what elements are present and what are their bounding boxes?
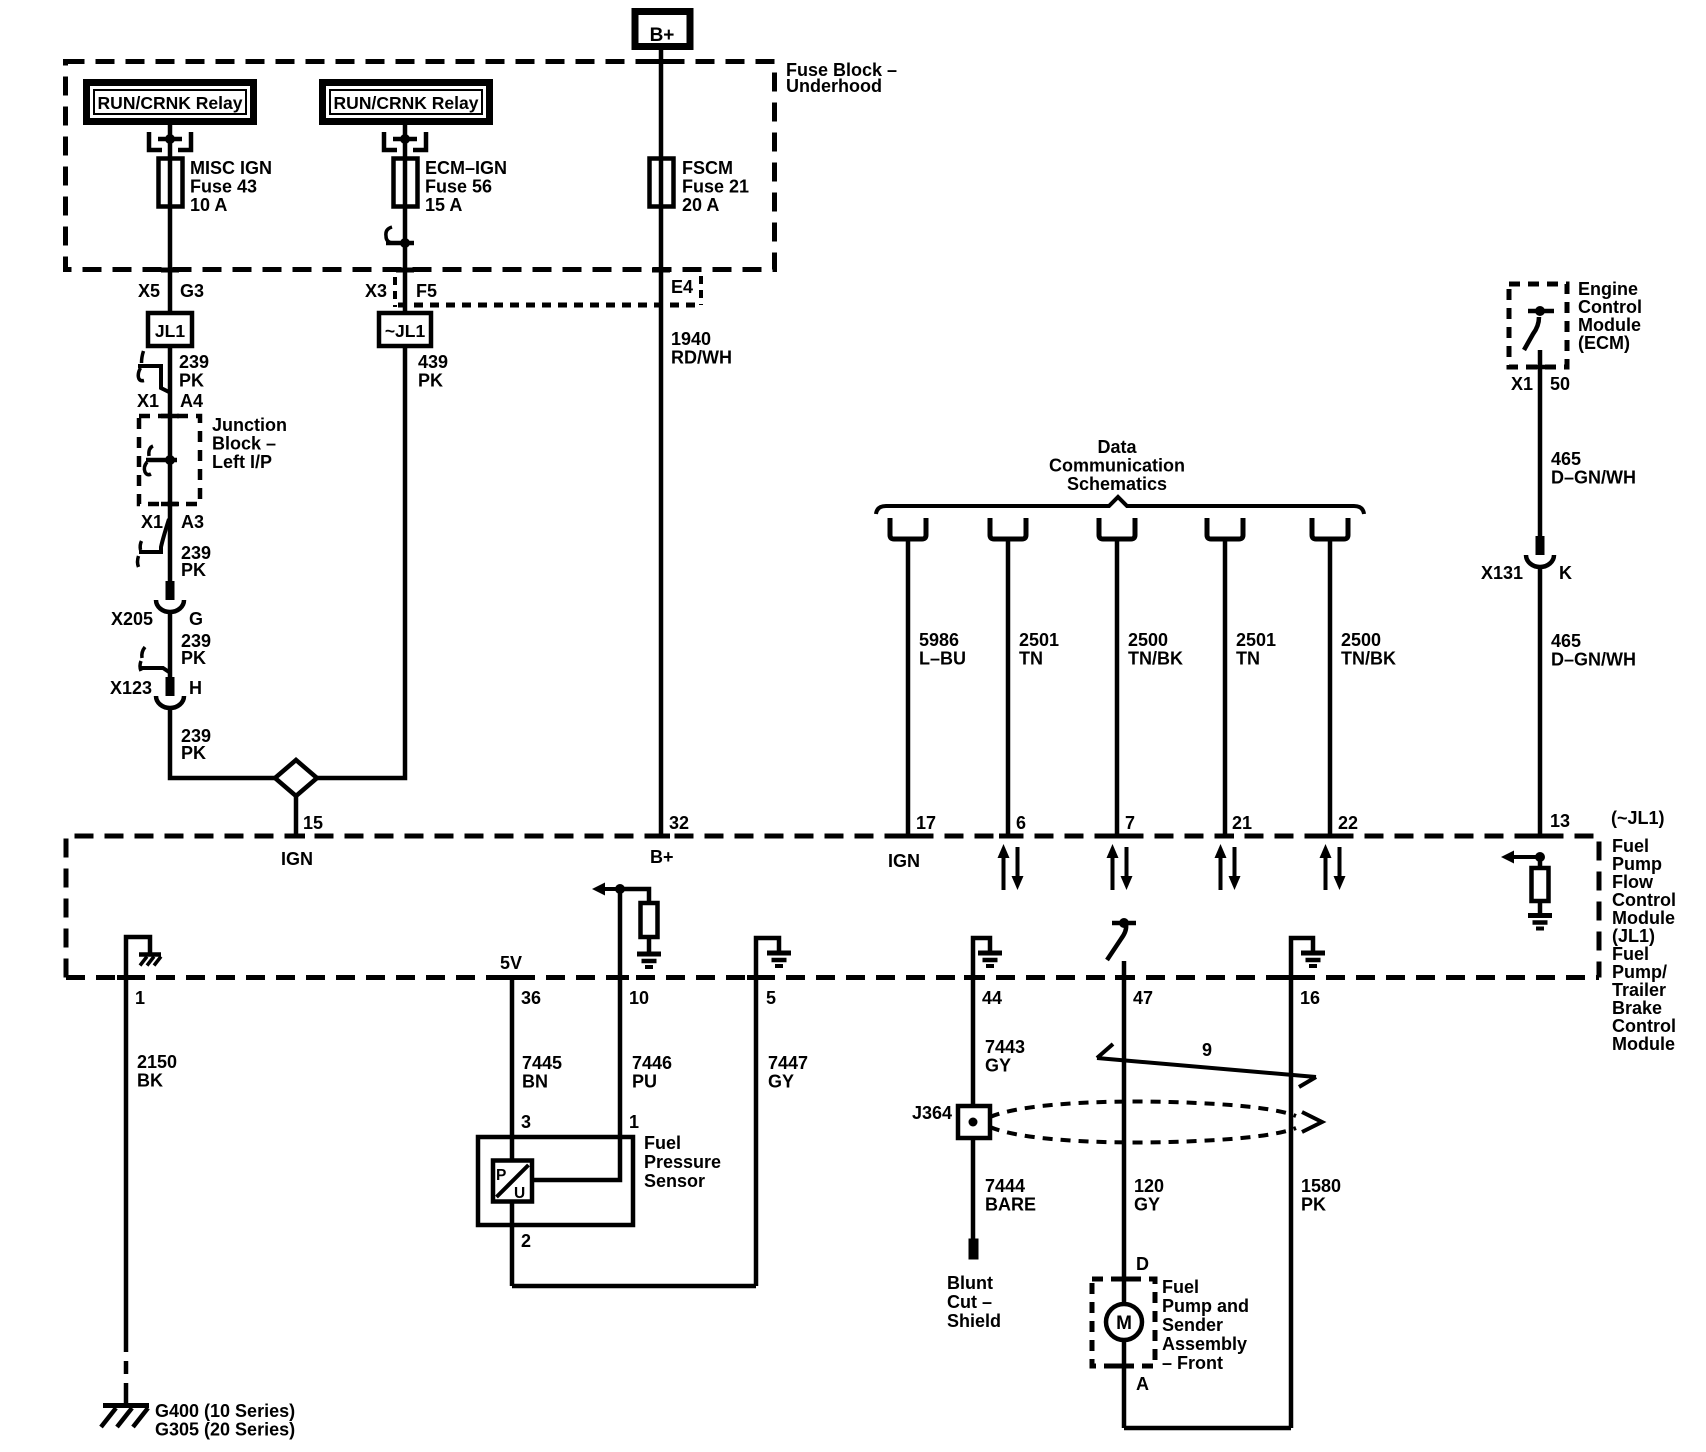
svg-text:~JL1: ~JL1	[385, 321, 426, 341]
svg-text:X131: X131	[1481, 563, 1523, 583]
fuse F21 FSCM	[650, 159, 674, 207]
svg-text:Block –: Block –	[212, 434, 276, 454]
junction block internal contact	[149, 446, 153, 456]
svg-text:G: G	[189, 609, 203, 629]
tick wire crossing fuse block bottom x661	[652, 268, 670, 273]
svg-text:7446: 7446	[632, 1053, 672, 1073]
connector X205 female cup	[156, 600, 184, 612]
svg-text:FSCM: FSCM	[682, 158, 733, 178]
tick wire crossing module bottom x1124	[1115, 975, 1133, 980]
serial data arrows at x1008	[1002, 854, 1006, 890]
svg-text:BK: BK	[137, 1071, 163, 1091]
svg-text:Communication: Communication	[1049, 456, 1185, 476]
svg-text:Pump: Pump	[1612, 854, 1662, 874]
connector X1 A4 jaw symbol	[142, 351, 144, 363]
dashed separator at E4	[699, 276, 703, 305]
tick wire crossing ECM box bottom	[1531, 365, 1549, 370]
junction block dashed box	[139, 416, 200, 504]
twisted pair indicator 9	[1097, 1058, 1316, 1077]
svg-text:TN: TN	[1236, 649, 1260, 669]
fuse block underhood dashed box	[66, 62, 775, 270]
fuse F43 MISC IGN	[159, 159, 183, 207]
wire B+ to FSCM fuse and down to pin 32	[659, 49, 664, 838]
svg-text:JL1: JL1	[155, 321, 185, 341]
svg-text:239: 239	[179, 352, 209, 372]
svg-text:7443: 7443	[985, 1037, 1025, 1057]
svg-text:465: 465	[1551, 631, 1581, 651]
data link connector symbol 2	[990, 518, 1026, 539]
pin 10 internal resistor	[641, 903, 658, 937]
svg-text:Module: Module	[1612, 908, 1675, 928]
svg-text:Flow: Flow	[1612, 872, 1654, 892]
tick wire crossing module top x1117	[1108, 834, 1126, 839]
tick wire crossing module top x1540	[1531, 834, 1549, 839]
svg-text:X3: X3	[365, 281, 387, 301]
fuse F56 ECM-IGN	[394, 159, 418, 207]
svg-text:X1: X1	[141, 512, 163, 532]
tick wire crossing module bottom x620	[611, 975, 629, 980]
ground G400/G305 chassis symbol	[124, 1396, 129, 1405]
svg-text:H: H	[189, 678, 202, 698]
connector X205 male pin	[166, 581, 175, 600]
shield dashed lens	[990, 1102, 1296, 1117]
pin 47 internal switch	[1122, 961, 1127, 977]
svg-text:(ECM): (ECM)	[1578, 333, 1630, 353]
data wire 1	[906, 539, 911, 838]
data link connector symbol 3	[1099, 518, 1135, 539]
fuel pump motor M	[1106, 1304, 1142, 1340]
pin 13 internal wire	[1538, 857, 1543, 915]
svg-text:(JL1): (JL1)	[1612, 926, 1655, 946]
svg-text:Control: Control	[1578, 297, 1642, 317]
svg-text:2500: 2500	[1341, 630, 1381, 650]
pin 13 internal arrow	[1513, 855, 1540, 859]
svg-text:7444: 7444	[985, 1176, 1025, 1196]
pin 13 internal ground	[1528, 913, 1552, 918]
wire ECM to X131	[1538, 350, 1543, 536]
serial data arrows at x1117	[1111, 854, 1115, 890]
svg-text:439: 439	[418, 352, 448, 372]
svg-text:5986: 5986	[919, 630, 959, 650]
fuel pressure sensor box	[478, 1137, 633, 1225]
svg-text:Fuse 56: Fuse 56	[425, 177, 492, 197]
wire pin 36 to sensor	[510, 977, 515, 1286]
svg-text:2150: 2150	[137, 1052, 177, 1072]
pin 10 internal resistor lead	[647, 937, 652, 953]
svg-text:J364: J364	[912, 1103, 952, 1123]
tick wire crossing junction block bottom	[161, 502, 179, 507]
svg-text:MISC IGN: MISC IGN	[190, 158, 272, 178]
pin 10 internal arrow	[604, 887, 620, 891]
svg-text:TN/BK: TN/BK	[1128, 649, 1183, 669]
svg-text:Schematics: Schematics	[1067, 474, 1167, 494]
brace over data connectors	[876, 497, 1364, 514]
svg-text:K: K	[1559, 563, 1572, 583]
svg-text:3: 3	[521, 1112, 531, 1132]
svg-text:2501: 2501	[1236, 630, 1276, 650]
svg-text:10 A: 10 A	[190, 195, 227, 215]
data wire 2	[1006, 539, 1011, 838]
data link connector symbol 1	[890, 518, 926, 539]
svg-text:A: A	[1136, 1374, 1149, 1394]
wire pump to 1580 PK	[1124, 1426, 1291, 1431]
svg-text:1940: 1940	[671, 329, 711, 349]
svg-text:Brake: Brake	[1612, 998, 1662, 1018]
svg-text:15 A: 15 A	[425, 195, 462, 215]
battery feed B+ box	[635, 12, 690, 47]
serial data arrows at x1225	[1219, 854, 1223, 890]
tick wire crossing pump box bottom	[1115, 1364, 1133, 1369]
svg-text:GY: GY	[768, 1072, 794, 1092]
svg-text:PK: PK	[179, 371, 204, 391]
svg-text:PK: PK	[181, 648, 206, 668]
svg-text:1: 1	[629, 1112, 639, 1132]
wire X131 to pin 13	[1538, 567, 1543, 838]
wire pin 47 to fuel pump	[1122, 977, 1127, 1428]
tick wire crossing module bottom x973	[964, 975, 982, 980]
svg-text:X1: X1	[137, 391, 159, 411]
svg-text:22: 22	[1338, 813, 1358, 833]
tick wire crossing module top x1008	[999, 834, 1017, 839]
data wire 5	[1328, 539, 1333, 838]
fuel pump flow control module dashed box	[66, 836, 1599, 978]
wire splice diamond to pin 15	[294, 796, 299, 838]
svg-text:44: 44	[982, 988, 1002, 1008]
svg-text:PK: PK	[418, 371, 443, 391]
svg-text:– Front: – Front	[1162, 1353, 1223, 1373]
switch contact below fuse 56	[386, 227, 392, 243]
svg-text:TN/BK: TN/BK	[1341, 649, 1396, 669]
svg-text:Assembly: Assembly	[1162, 1334, 1247, 1354]
tick wire crossing module top x1330	[1321, 834, 1339, 839]
svg-text:15: 15	[303, 813, 323, 833]
svg-text:RUN/CRNK Relay: RUN/CRNK Relay	[98, 93, 243, 113]
svg-text:ECM–IGN: ECM–IGN	[425, 158, 507, 178]
svg-text:36: 36	[521, 988, 541, 1008]
svg-text:BN: BN	[522, 1072, 548, 1092]
svg-text:Sensor: Sensor	[644, 1171, 705, 1191]
svg-text:1580: 1580	[1301, 1176, 1341, 1196]
node JL1 box	[148, 313, 192, 346]
pin 5 internal ground	[756, 938, 779, 977]
svg-text:X1: X1	[1511, 374, 1533, 394]
tick wire crossing module top x661	[652, 834, 670, 839]
svg-text:X205: X205	[111, 609, 153, 629]
svg-text:D: D	[1136, 1254, 1149, 1274]
tick wire crossing module bottom x1291	[1282, 975, 1300, 980]
tick wire crossing pump box top	[1115, 1277, 1133, 1282]
serial data arrows at x1330	[1324, 854, 1328, 890]
svg-text:Junction: Junction	[212, 415, 287, 435]
svg-text:Module: Module	[1578, 315, 1641, 335]
svg-text:Fuel: Fuel	[1612, 944, 1649, 964]
svg-text:Sender: Sender	[1162, 1315, 1223, 1335]
svg-text:F5: F5	[416, 281, 437, 301]
svg-text:TN: TN	[1019, 649, 1043, 669]
data wire 3	[1115, 539, 1120, 838]
svg-text:7445: 7445	[522, 1053, 562, 1073]
svg-text:U: U	[514, 1185, 525, 1202]
svg-text:G400 (10 Series): G400 (10 Series)	[155, 1401, 295, 1421]
svg-text:A4: A4	[180, 391, 203, 411]
svg-text:Fuel: Fuel	[1162, 1277, 1199, 1297]
wire pin 5 down	[754, 977, 759, 1286]
svg-text:GY: GY	[985, 1056, 1011, 1076]
pin 10 internal wire	[620, 889, 649, 903]
svg-text:G305 (20 Series): G305 (20 Series)	[155, 1420, 295, 1440]
svg-text:2500: 2500	[1128, 630, 1168, 650]
svg-text:32: 32	[669, 813, 689, 833]
pin 16 internal ground	[1291, 938, 1313, 977]
svg-text:D–GN/WH: D–GN/WH	[1551, 468, 1636, 488]
relay K2 RUN/CRNK Relay box	[323, 83, 490, 122]
svg-text:20 A: 20 A	[682, 195, 719, 215]
svg-text:RUN/CRNK Relay: RUN/CRNK Relay	[334, 93, 479, 113]
svg-text:(~JL1): (~JL1)	[1611, 808, 1665, 828]
svg-text:5: 5	[766, 988, 776, 1008]
svg-text:Control: Control	[1612, 890, 1676, 910]
svg-text:PK: PK	[1301, 1195, 1326, 1215]
svg-text:Underhood: Underhood	[786, 76, 882, 96]
svg-text:Fuel: Fuel	[644, 1133, 681, 1153]
tick wire crossing module top x1225	[1216, 834, 1234, 839]
tick wire crossing fuse block bottom x405	[396, 268, 414, 273]
dotted extension line under fuse block	[398, 303, 701, 308]
fuel pump dashed box	[1092, 1279, 1155, 1366]
connector X131 female cup	[1526, 555, 1554, 567]
svg-text:Pressure: Pressure	[644, 1152, 721, 1172]
splice diamond	[275, 760, 317, 796]
wire relay K1 to JL1	[168, 121, 173, 581]
pin 13 internal resistor	[1532, 868, 1549, 901]
wire X123 down and right to splice diamond	[170, 708, 275, 778]
svg-text:Trailer: Trailer	[1612, 980, 1666, 1000]
svg-text:BARE: BARE	[985, 1195, 1036, 1215]
svg-text:IGN: IGN	[888, 851, 920, 871]
tick wire crossing module bottom x126	[117, 975, 135, 980]
connector X1 A3 jaw symbol	[139, 519, 169, 552]
svg-text:IGN: IGN	[281, 849, 313, 869]
shield lens tip	[1302, 1112, 1322, 1132]
wire sensor pin 2 to 7447	[512, 1284, 756, 1289]
wire relay K2 to ~JL1	[403, 121, 408, 313]
svg-text:465: 465	[1551, 449, 1581, 469]
svg-text:Pump and: Pump and	[1162, 1296, 1249, 1316]
svg-text:120: 120	[1134, 1176, 1164, 1196]
pin 44 internal ground	[973, 938, 990, 977]
engine control module dashed box	[1509, 284, 1567, 367]
svg-text:B+: B+	[650, 847, 674, 867]
connector X123 male pin	[166, 677, 175, 696]
svg-text:PK: PK	[181, 743, 206, 763]
tick wire crossing junction block top	[161, 414, 179, 419]
svg-text:17: 17	[916, 813, 936, 833]
pin 10 internal ground	[637, 952, 661, 957]
svg-text:7447: 7447	[768, 1053, 808, 1073]
wire pin 44 to blunt cut	[971, 977, 976, 1239]
svg-text:X123: X123	[110, 678, 152, 698]
wire pin 10 to sensor pin 1	[530, 977, 620, 1180]
connector X123 female cup	[156, 696, 184, 708]
sensor P/U transducer symbol	[493, 1161, 532, 1202]
svg-text:Module: Module	[1612, 1034, 1675, 1054]
tick wire crossing module bottom x756	[747, 975, 765, 980]
svg-text:Shield: Shield	[947, 1311, 1001, 1331]
svg-text:Pump/: Pump/	[1612, 962, 1667, 982]
svg-text:Engine: Engine	[1578, 279, 1638, 299]
data wire 4	[1223, 539, 1228, 838]
relay K1 RUN/CRNK Relay box	[87, 83, 254, 122]
wire pin 1 to G400	[124, 977, 129, 1339]
svg-text:PK: PK	[181, 560, 206, 580]
svg-text:Control: Control	[1612, 1016, 1676, 1036]
wire pin 16 down	[1289, 977, 1294, 1428]
svg-text:Data: Data	[1097, 437, 1137, 457]
tick wire crossing fuse block bottom x170	[161, 268, 179, 273]
relay K1 terminal bracket	[149, 132, 162, 150]
pin 10 wire above box edge	[618, 889, 623, 977]
svg-text:5V: 5V	[500, 953, 522, 973]
data link connector symbol 5	[1312, 518, 1348, 539]
node ~JL1 box	[379, 313, 431, 346]
svg-text:21: 21	[1232, 813, 1252, 833]
wire X205 to X123	[168, 612, 173, 677]
svg-text:RD/WH: RD/WH	[671, 348, 732, 368]
svg-text:Fuse 43: Fuse 43	[190, 177, 257, 197]
svg-text:L–BU: L–BU	[919, 649, 966, 669]
svg-text:1: 1	[135, 988, 145, 1008]
tick wire crossing module bottom x512	[503, 975, 521, 980]
svg-text:7: 7	[1125, 813, 1135, 833]
svg-text:P: P	[496, 1167, 506, 1184]
svg-text:16: 16	[1300, 988, 1320, 1008]
connector jaw below X205	[142, 647, 145, 658]
svg-text:Fuel: Fuel	[1612, 836, 1649, 856]
svg-text:9: 9	[1202, 1040, 1212, 1060]
dashed wire to ground	[124, 1339, 129, 1399]
svg-text:D–GN/WH: D–GN/WH	[1551, 650, 1636, 670]
svg-text:Fuse 21: Fuse 21	[682, 177, 749, 197]
svg-text:PU: PU	[632, 1072, 657, 1092]
svg-text:47: 47	[1133, 988, 1153, 1008]
svg-text:50: 50	[1550, 374, 1570, 394]
svg-text:2: 2	[521, 1231, 531, 1251]
data link connector symbol 4	[1207, 518, 1243, 539]
tick wire crossing module top x908	[899, 834, 917, 839]
svg-text:GY: GY	[1134, 1195, 1160, 1215]
blunt cut terminal	[969, 1239, 978, 1259]
svg-text:B+: B+	[650, 25, 675, 46]
svg-text:G3: G3	[180, 281, 204, 301]
splice J364 box	[958, 1106, 990, 1138]
tick wire crossing module top x296	[287, 834, 305, 839]
svg-text:Cut –: Cut –	[947, 1292, 992, 1312]
wire ~JL1 down to splice diamond	[317, 346, 405, 778]
svg-text:E4: E4	[671, 277, 693, 297]
ECM internal contact	[1528, 309, 1554, 314]
svg-text:2501: 2501	[1019, 630, 1059, 650]
tick wire crossing fuse block top x661	[652, 59, 670, 64]
dashed separator at X3	[393, 277, 397, 307]
svg-text:13: 13	[1550, 811, 1570, 831]
svg-text:A3: A3	[181, 512, 204, 532]
svg-text:X5: X5	[138, 281, 160, 301]
svg-text:6: 6	[1016, 813, 1026, 833]
svg-text:Left I/P: Left I/P	[212, 452, 272, 472]
svg-text:Blunt: Blunt	[947, 1273, 993, 1293]
pin 1 internal chassis ground	[126, 937, 150, 977]
svg-text:M: M	[1116, 1313, 1132, 1334]
relay K2 terminal bracket	[384, 132, 397, 150]
svg-text:10: 10	[629, 988, 649, 1008]
connector X131 male pin	[1536, 536, 1545, 555]
